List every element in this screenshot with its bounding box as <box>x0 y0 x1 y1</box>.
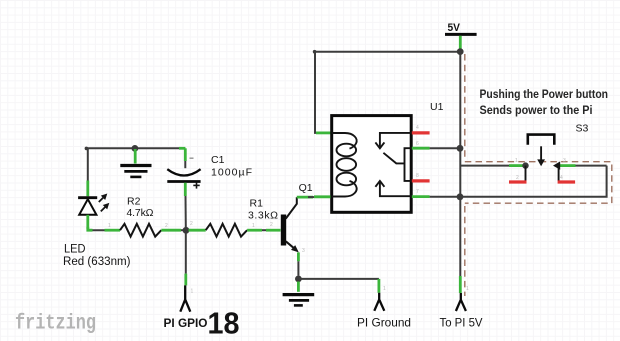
LED bottom lead <box>88 215 105 230</box>
relay U1 pin NO (green) <box>412 195 430 198</box>
wire: LED branch top horizontal <box>85 147 186 151</box>
LED cathode bar <box>78 196 97 199</box>
svg-text:6: 6 <box>416 141 419 147</box>
pushbutton S3 movable contact arrow <box>553 161 560 169</box>
LED top lead <box>87 148 89 196</box>
LED D1 <box>63 148 131 267</box>
annotation note text <box>480 87 609 117</box>
capacitor C1 straight plate <box>167 180 200 183</box>
capacitor C1 curved plate <box>167 169 200 175</box>
svg-text:LED: LED <box>64 242 86 256</box>
transistor Q1 <box>281 182 313 252</box>
svg-text:1: 1 <box>383 286 386 292</box>
svg-text:1: 1 <box>108 223 111 229</box>
svg-text:18: 18 <box>208 307 240 341</box>
junction: emitter / ground / PI-ground node <box>295 276 302 283</box>
svg-text:Pushing the Power button: Pushing the Power button <box>480 87 609 101</box>
svg-text:5V: 5V <box>448 22 461 34</box>
capacitor C1 top lead <box>184 148 187 168</box>
svg-text:1: 1 <box>515 158 518 164</box>
resistor R2 zigzag <box>120 224 161 237</box>
power symbol 5V <box>445 22 477 49</box>
junction: switch pin 1 <box>522 162 528 168</box>
LED light arrow 2 <box>101 203 110 212</box>
svg-text:2: 2 <box>516 175 519 181</box>
transistor Q1 base bar <box>281 215 286 246</box>
wire: relay COM to 5V bus <box>430 147 460 149</box>
junction: 5V symbol to rail <box>457 48 464 55</box>
svg-text:4.7kΩ: 4.7kΩ <box>127 207 154 219</box>
svg-text:1000µF: 1000µF <box>211 167 252 179</box>
svg-text:4: 4 <box>416 125 419 131</box>
svg-text:4: 4 <box>560 175 563 181</box>
transistor Q1 emitter with arrow <box>286 241 299 252</box>
svg-text:PI GPIO: PI GPIO <box>164 318 208 330</box>
ground symbol (under Q1) <box>283 282 315 306</box>
svg-text:C1: C1 <box>211 154 225 166</box>
capacitor C1 bottom lead <box>184 183 187 228</box>
pushbutton S3 <box>509 123 589 182</box>
svg-text:1: 1 <box>191 289 194 295</box>
svg-text:3.3kΩ: 3.3kΩ <box>248 210 278 222</box>
svg-text:7: 7 <box>416 189 419 195</box>
header pin: PI GPIO <box>180 285 190 311</box>
junction: ground tap on LED branch <box>132 145 139 152</box>
wire: node to PI GPIO header <box>185 234 187 286</box>
relay U1 pin COM2 (red, unconnected) <box>412 179 430 182</box>
resistor R2 <box>105 196 184 237</box>
wire: to PI Ground header <box>298 279 379 293</box>
ground symbol (left) <box>120 149 151 177</box>
svg-text:fritzing: fritzing <box>15 313 96 336</box>
svg-text:R1: R1 <box>250 198 264 210</box>
pushbutton S3 press arrow <box>537 146 545 166</box>
wire: main vertical 5V bus down to To-PI-5V header <box>459 52 461 293</box>
relay U1 pin NC (red, unconnected) <box>412 131 430 134</box>
wire: top 5V rail horizontal <box>313 50 460 54</box>
pushbutton S3 cap bracket <box>528 135 555 145</box>
wire: switch return loop right and bottom <box>460 166 607 197</box>
wire: Q1 collector to relay coil- <box>297 195 331 198</box>
svg-text:2: 2 <box>165 223 168 229</box>
relay U1 <box>332 101 444 212</box>
pushbutton S3 pin 4 (red, unconnected) <box>558 166 576 182</box>
relay U1 NO contact arrow <box>375 181 411 196</box>
svg-text:3: 3 <box>302 248 305 254</box>
resistor R2 left lead <box>105 229 121 232</box>
svg-text:To PI 5V: To PI 5V <box>440 316 483 330</box>
resistor R1 <box>189 198 281 237</box>
wire: switch S3 right leg <box>560 164 607 167</box>
junction: switch return loop on 5V bus <box>457 193 464 200</box>
LED light arrow 1 <box>99 194 108 203</box>
svg-text:PI Ground: PI Ground <box>357 316 411 330</box>
capacitor C1 plus mark <box>193 182 199 188</box>
relay U1 box outline <box>332 116 412 213</box>
LED triangle <box>79 199 96 215</box>
pushbutton S3 pin 2 (red, unconnected) <box>509 166 527 182</box>
resistor R1 left lead <box>189 229 206 232</box>
relay U1 coil <box>332 133 357 197</box>
wire: left drop from 5V rail to relay coil pin <box>315 52 332 133</box>
svg-text:1: 1 <box>466 286 469 292</box>
svg-text:2: 2 <box>190 221 193 227</box>
relay U1 movable contact lever <box>383 153 404 164</box>
svg-text:2: 2 <box>270 222 273 228</box>
pin number tiny labels <box>108 125 566 295</box>
selection highlight dashed outline of 5V net <box>465 54 612 296</box>
resistor R1 zigzag <box>206 224 247 237</box>
svg-text:R2: R2 <box>127 196 141 208</box>
transistor Q1 collector <box>286 197 297 218</box>
header pin: To PI 5V <box>456 293 466 311</box>
svg-text:S3: S3 <box>576 123 589 135</box>
wire: relay NO to 5V bus <box>430 196 460 198</box>
relay U1 armature common bracket <box>405 148 412 181</box>
svg-text:8: 8 <box>416 173 419 179</box>
svg-text:3: 3 <box>563 158 566 164</box>
capacitor C1 <box>167 148 252 227</box>
wire: Q1 emitter drop <box>297 252 300 275</box>
resistor R1 right lead <box>247 229 280 232</box>
junction: R2/R1/C1/GPIO node <box>183 227 190 234</box>
svg-text:1: 1 <box>252 223 255 229</box>
svg-text:Red (633nm): Red (633nm) <box>63 256 131 268</box>
svg-text:Q1: Q1 <box>299 182 313 194</box>
relay U1 NC contact arrow <box>375 133 411 148</box>
svg-text:Sends power to the Pi: Sends power to the Pi <box>480 103 593 117</box>
svg-text:U1: U1 <box>430 101 444 113</box>
resistor R2 right lead <box>161 229 183 232</box>
header pin: PI Ground <box>374 293 384 311</box>
capacitor C1 minus mark <box>190 157 194 159</box>
relay U1 pin COM (green) <box>412 147 430 150</box>
junction: relay COM on 5V bus <box>457 145 464 152</box>
wire: switch S3 top leg <box>460 165 524 167</box>
